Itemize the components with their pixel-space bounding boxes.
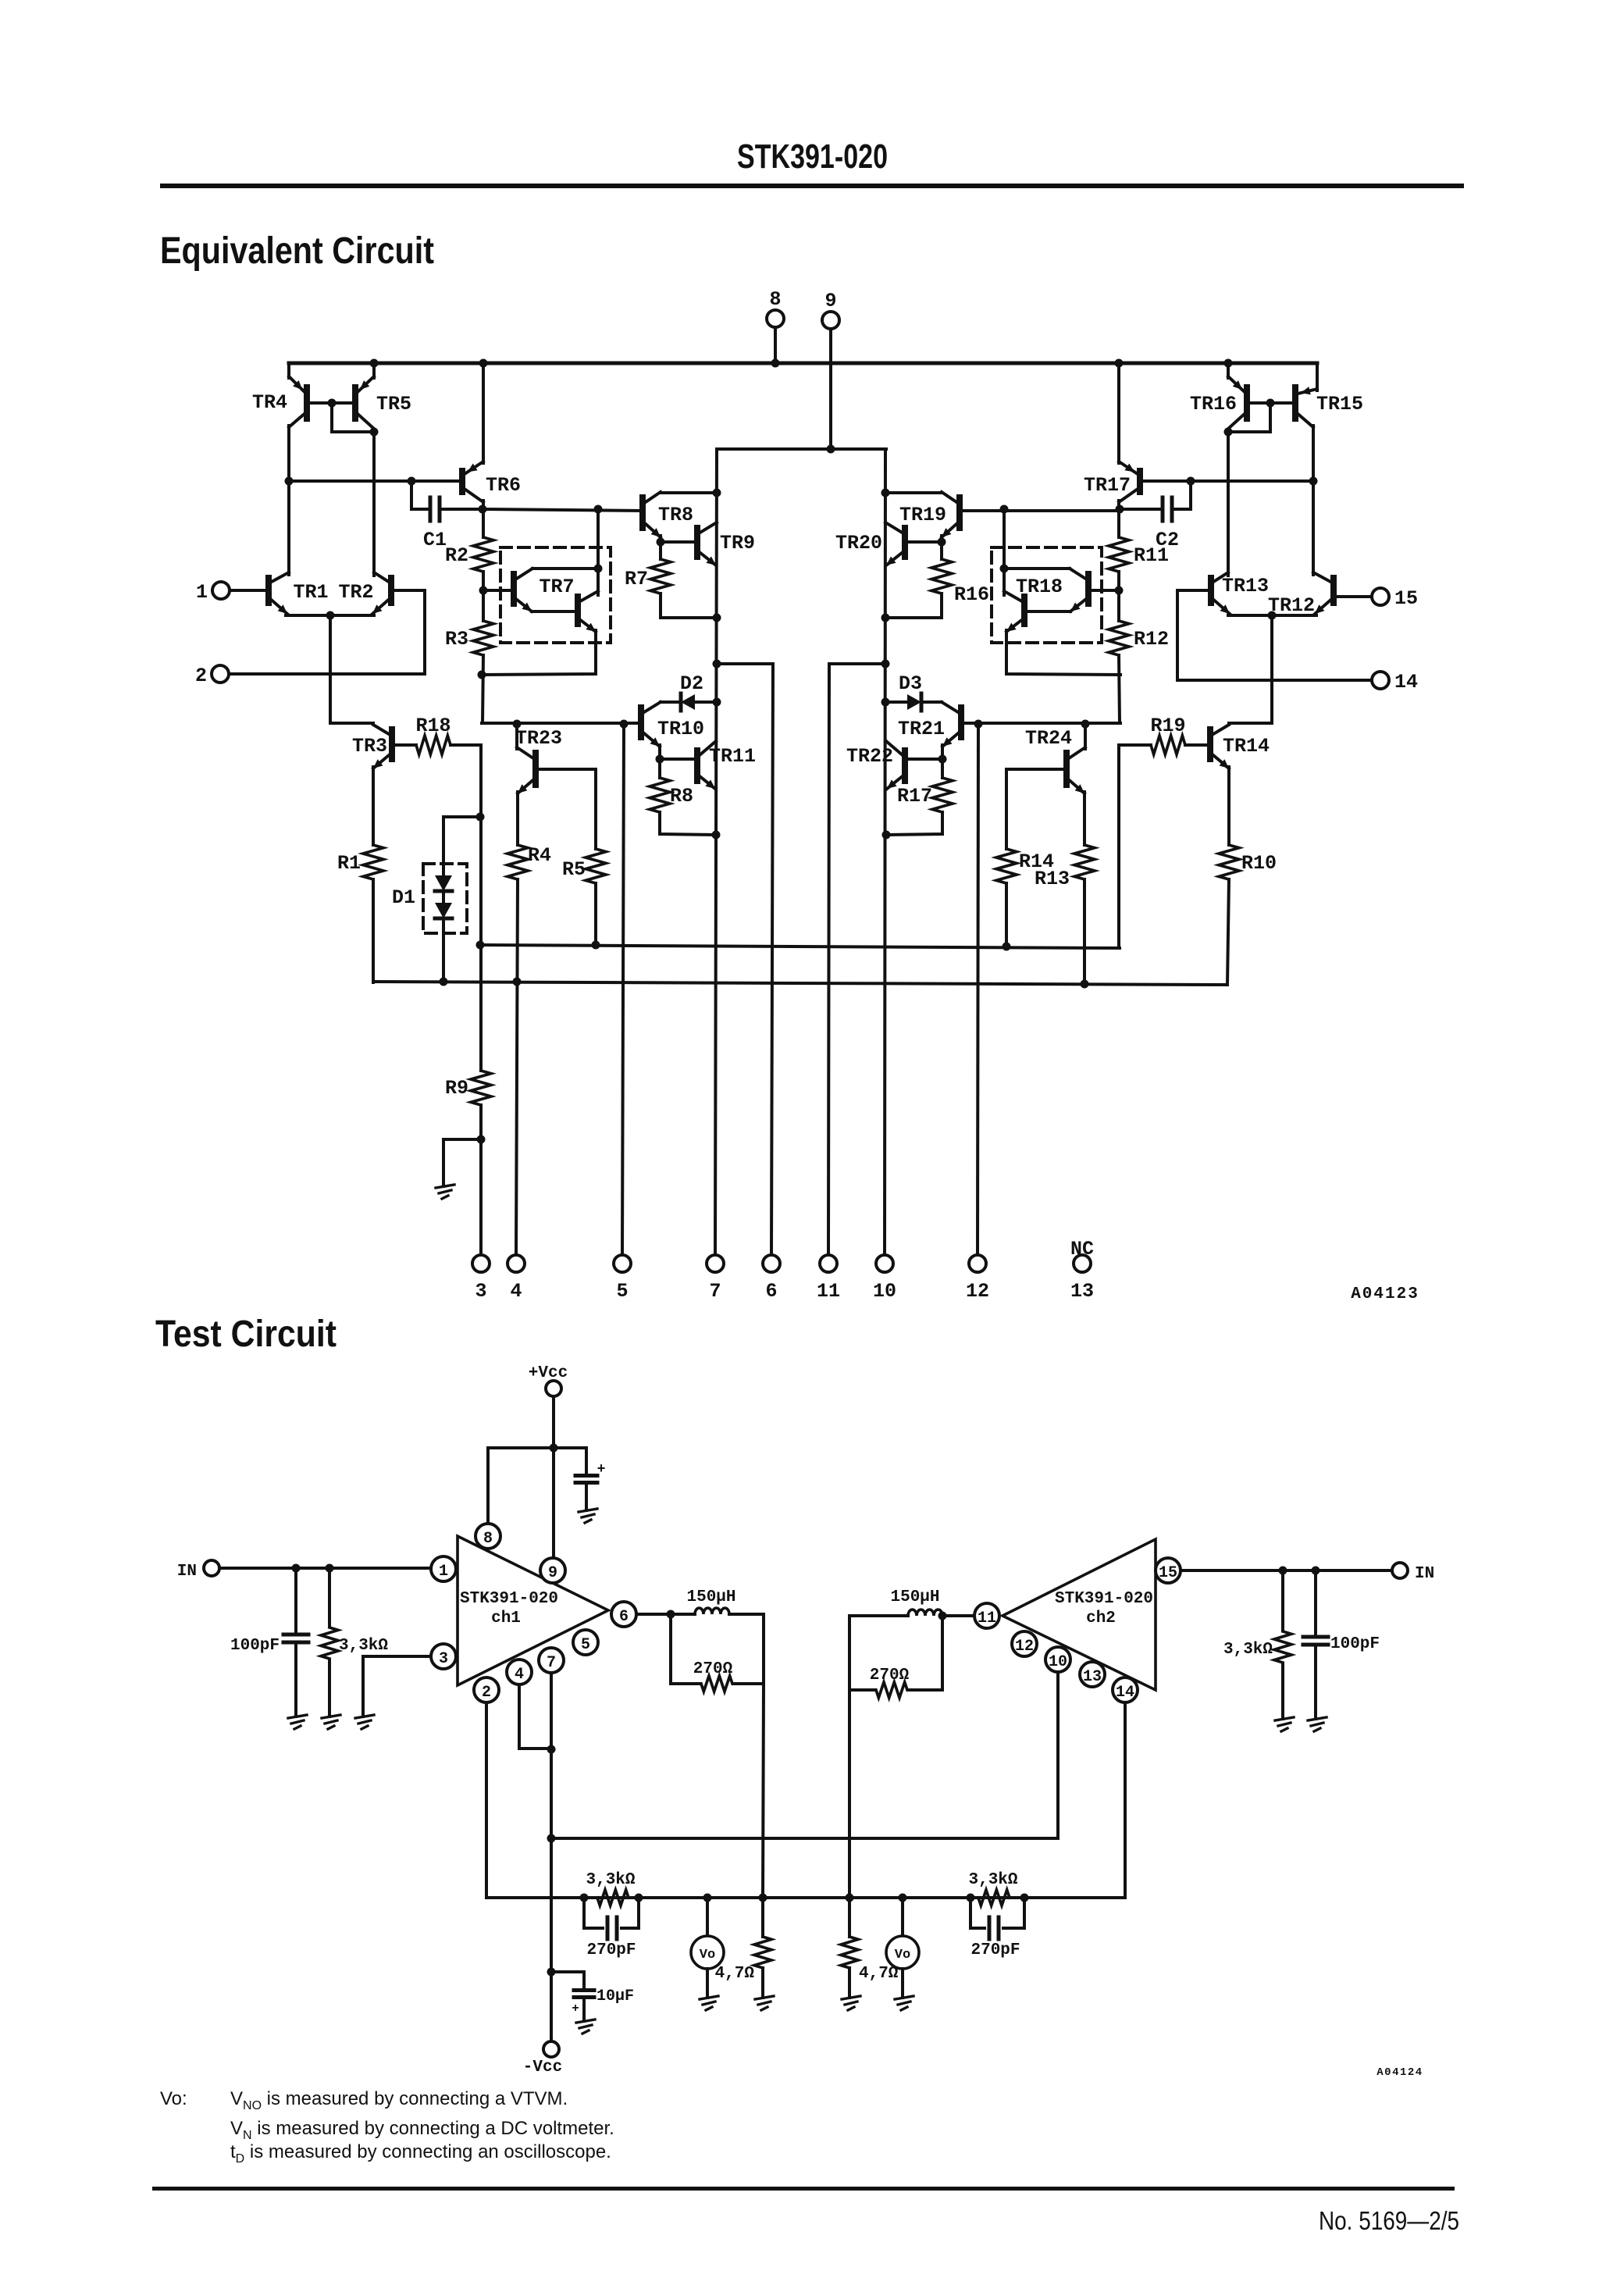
svg-text:R3: R3	[445, 628, 468, 651]
wire TR13 base to pin14 net	[1177, 590, 1211, 680]
svg-text:R18: R18	[415, 715, 451, 737]
svg-text:R9: R9	[445, 1077, 468, 1100]
svg-text:14: 14	[1394, 671, 1418, 693]
wire TR24 emitter to R13	[1083, 792, 1086, 845]
wire R2 to R3	[482, 572, 485, 621]
svg-text:TR6: TR6	[486, 474, 521, 497]
svg-text:TR9: TR9	[720, 532, 755, 554]
wire C2 right plate	[1172, 481, 1191, 509]
wire TR6 collector chain	[482, 501, 485, 537]
svg-text:15: 15	[1159, 1564, 1177, 1582]
wire load column ch1	[763, 1684, 764, 1898]
header rule	[160, 184, 1464, 188]
svg-text:STK391-020: STK391-020	[460, 1590, 558, 1608]
diode D2	[681, 694, 695, 710]
ground	[895, 1996, 913, 1999]
transistor TR13	[1208, 578, 1214, 603]
transistor TR8	[639, 497, 646, 528]
wire +Vcc column to pin9	[552, 1396, 555, 1559]
svg-text:6: 6	[619, 1608, 629, 1626]
svg-text:D3: D3	[899, 672, 922, 695]
svg-text:STK391-020: STK391-020	[737, 137, 888, 176]
transistor TR11	[694, 750, 700, 781]
svg-text:ch2: ch2	[1086, 1610, 1116, 1627]
wire C1 right plate to TR6 collector	[440, 508, 483, 511]
wire TR8 base line	[483, 509, 643, 511]
ground	[755, 1996, 774, 1999]
svg-text:A04124: A04124	[1376, 2066, 1423, 2079]
pin 1 terminal	[212, 582, 230, 599]
wire pin8 stub	[774, 327, 777, 363]
wire R5 bottom	[594, 883, 597, 945]
svg-text:150µH: 150µH	[686, 1588, 735, 1606]
wire TR4-TR5 base link	[307, 401, 355, 405]
wire pin9 to driver rail	[829, 329, 832, 449]
pin 14 of ch2	[1113, 1677, 1138, 1702]
resistor R12	[1109, 621, 1129, 655]
wire TR18a emitter to TR18b base	[1024, 610, 1070, 613]
transistor TR18b	[1021, 597, 1027, 624]
svg-text:100pF: 100pF	[1330, 1635, 1380, 1653]
wire pin1 to TR1 base	[230, 589, 269, 592]
svg-text:R2: R2	[445, 544, 468, 567]
resistor 4.7 ch1	[754, 1937, 771, 1968]
wire R16 leads	[940, 542, 943, 559]
svg-text:TR3: TR3	[352, 735, 387, 758]
transistor TR17	[1137, 471, 1143, 492]
ground	[1275, 1717, 1294, 1720]
wire TR18 base	[1088, 589, 1119, 592]
wire R4 bottom to pin4	[516, 879, 518, 1255]
wire TR1 collector	[287, 481, 290, 575]
svg-text:TR11: TR11	[709, 745, 756, 768]
svg-text:STK391-020: STK391-020	[1055, 1590, 1153, 1608]
pin 2 terminal	[212, 665, 229, 683]
wire TR3 base R18	[392, 743, 416, 747]
wire TR17 collector chain	[1117, 501, 1120, 537]
svg-text:R12: R12	[1134, 628, 1169, 651]
wire TR14 emitter / R10 column	[1227, 767, 1230, 845]
svg-text:13: 13	[1070, 1280, 1094, 1303]
wire TR16-TR15 base link	[1247, 401, 1295, 405]
svg-text:270pF: 270pF	[586, 1941, 636, 1959]
transistor TR20	[902, 528, 908, 557]
capacitor 10uF supply	[551, 1970, 584, 1973]
pin 10 of ch2	[1045, 1647, 1070, 1672]
ground	[355, 1715, 374, 1718]
svg-text:2: 2	[195, 665, 207, 687]
wire TR15 collector to TR17 base	[1140, 479, 1313, 483]
wire TR8 emitter to TR9 base	[659, 536, 662, 542]
transistor TR10	[638, 708, 644, 737]
resistor 3.3k right	[1281, 1570, 1284, 1630]
wire TR15 emitter to rail	[1316, 363, 1319, 390]
svg-text:R13: R13	[1035, 868, 1070, 890]
pin 7 terminal	[707, 1255, 724, 1272]
transistor TR5	[352, 387, 358, 419]
wire TR19 emitter to TR20 base	[940, 536, 943, 542]
resistor 3.3k feedback ch2	[978, 1890, 1010, 1905]
transistor TR2	[388, 578, 394, 603]
svg-text:IN: IN	[177, 1563, 197, 1581]
svg-text:+: +	[597, 1462, 606, 1478]
diode D1a	[435, 875, 452, 891]
svg-text:R11: R11	[1134, 544, 1169, 567]
transistor TR9	[694, 528, 700, 557]
wire pin8 riser	[486, 1448, 490, 1524]
wire long bus A	[480, 945, 1120, 948]
ground	[576, 2020, 595, 2023]
svg-text:ch1: ch1	[491, 1610, 521, 1627]
pin 5 of ch1	[573, 1630, 598, 1655]
svg-text:100pF: 100pF	[230, 1637, 280, 1655]
resistor R16	[931, 559, 952, 594]
transistor TR14	[1207, 729, 1213, 759]
wire TR3 emitter / R1 column	[372, 767, 375, 845]
wire ground stub	[443, 1138, 481, 1141]
wire TR7 collector to top net	[597, 509, 600, 595]
transistor TR16	[1244, 387, 1250, 419]
svg-text:TR20: TR20	[835, 532, 882, 554]
svg-text:TR5: TR5	[376, 393, 411, 415]
svg-text:TR17: TR17	[1084, 474, 1131, 497]
wire D2 leads	[661, 701, 681, 704]
wire pin15 to TR12 base	[1334, 595, 1372, 598]
svg-text:TR8: TR8	[658, 504, 693, 526]
svg-text:9: 9	[548, 1564, 557, 1582]
transistor TR1	[265, 578, 272, 603]
transistor TR4	[304, 387, 310, 419]
wire TR18 collector to top net	[1003, 509, 1006, 595]
vbe multiplier block TR7 dashed box	[500, 547, 611, 643]
svg-text:2: 2	[482, 1684, 491, 1702]
svg-text:Equivalent Circuit: Equivalent Circuit	[160, 230, 434, 272]
svg-text:A04123: A04123	[1351, 1285, 1419, 1303]
svg-text:TR19: TR19	[899, 504, 946, 526]
wire TR14 base R19	[1185, 743, 1210, 747]
svg-text:10: 10	[873, 1280, 896, 1303]
pin 15 of ch2	[1156, 1558, 1181, 1583]
op-amp block STK391-020 ch2	[1003, 1539, 1156, 1690]
wire R17 leads	[941, 759, 944, 778]
pin 4 terminal	[507, 1255, 525, 1272]
wire R19 to bus A	[1119, 743, 1151, 747]
svg-text:TR22: TR22	[846, 745, 893, 768]
wire TR7 base	[483, 589, 514, 592]
wire TR6 emitter from rail	[482, 363, 485, 463]
wire R11 to R12	[1117, 572, 1120, 621]
resistor R4	[507, 845, 528, 879]
transistor TR18a	[1085, 574, 1092, 604]
svg-text:Test Circuit: Test Circuit	[155, 1314, 337, 1355]
wire D3 leads	[921, 701, 942, 704]
svg-text:5: 5	[616, 1280, 628, 1303]
wire pin14 line	[1177, 679, 1372, 682]
pin 9 terminal	[822, 312, 839, 329]
capacitor 270pF ch1	[584, 1898, 603, 1928]
wire long bus B	[373, 982, 1227, 985]
wire TR2 base to pin2 net	[391, 590, 425, 674]
resistor R13	[1074, 845, 1095, 879]
wire TR15 collector drop	[1312, 426, 1315, 481]
wire TR7a emitter to TR7b base	[532, 610, 578, 613]
ground	[436, 1185, 454, 1188]
transistor TR7b	[575, 597, 581, 624]
svg-text:14: 14	[1116, 1684, 1134, 1702]
resistor R2	[473, 537, 493, 572]
power -Vcc terminal	[543, 2041, 559, 2057]
wire TR24 base to R14	[1006, 769, 1067, 849]
wire R3 bottom	[483, 655, 483, 723]
wire tail to TR14 collector	[1229, 615, 1272, 723]
wire IN to pin1	[219, 1567, 431, 1570]
svg-text:9: 9	[824, 290, 836, 312]
wire pin4 jumper	[519, 1684, 551, 1749]
svg-text:R7: R7	[625, 568, 648, 590]
wire pin5 column	[622, 724, 624, 1255]
svg-text:1: 1	[439, 1563, 448, 1581]
svg-text:Vo:: Vo:	[160, 2088, 187, 2109]
svg-text:3,3kΩ: 3,3kΩ	[968, 1871, 1017, 1889]
resistor 4.7 ch2	[841, 1937, 858, 1968]
ground	[842, 1996, 860, 1999]
input terminal IN right	[1392, 1563, 1408, 1578]
meter Vo ch1	[706, 1898, 709, 1936]
wire pin14 feedback drop ch2	[1124, 1702, 1127, 1898]
svg-text:R19: R19	[1150, 715, 1185, 737]
wire: +V top supply rail	[289, 362, 1317, 365]
pin 11 of ch2	[974, 1603, 999, 1628]
svg-text:6: 6	[765, 1280, 777, 1303]
ground	[1308, 1717, 1327, 1720]
wire TR12 collector	[1312, 481, 1315, 575]
svg-text:3,3kΩ: 3,3kΩ	[586, 1871, 635, 1889]
svg-text:7: 7	[709, 1280, 721, 1303]
svg-text:+: +	[572, 2002, 579, 2016]
transistor TR6	[459, 471, 465, 492]
svg-text:-Vcc: -Vcc	[523, 2059, 562, 2077]
svg-text:10µF: 10µF	[597, 1987, 634, 2005]
svg-text:+Vcc: +Vcc	[529, 1364, 568, 1382]
resistor 270 ch1	[669, 1614, 672, 1684]
svg-text:4: 4	[510, 1280, 522, 1303]
wire pin2 line	[229, 672, 425, 676]
ground	[700, 1996, 718, 1999]
svg-text:10: 10	[1049, 1653, 1067, 1671]
footer rule	[152, 2187, 1455, 2191]
wire TR23 collector	[515, 724, 518, 749]
svg-text:TR13: TR13	[1222, 575, 1269, 597]
pin 4 of ch1	[507, 1659, 532, 1684]
pin 8 terminal	[767, 310, 784, 327]
wire TR16 emitter to rail	[1227, 363, 1230, 378]
wire TR4 collector to TR6 base	[289, 479, 462, 483]
wire TR5 emitter to rail	[372, 363, 376, 378]
wire TR7 emitter return	[482, 630, 596, 675]
svg-text:TR15: TR15	[1316, 393, 1363, 415]
capacitor C1	[429, 497, 433, 521]
wire D1 column	[442, 817, 445, 875]
resistor R9	[471, 1071, 491, 1105]
wire feedback bus	[486, 1896, 1125, 1899]
svg-text:11: 11	[817, 1280, 840, 1303]
pin 10 terminal	[876, 1255, 893, 1272]
svg-text:No. 5169—2/5: No. 5169—2/5	[1319, 2206, 1459, 2235]
wire pin12 column	[978, 724, 978, 1255]
op-amp block STK391-020 ch1	[458, 1536, 608, 1685]
wire TR19 collector	[885, 491, 942, 494]
svg-text:TR4: TR4	[252, 391, 287, 414]
diode D1b	[435, 903, 452, 918]
svg-text:TR14: TR14	[1223, 735, 1270, 758]
wire TR1-TR2 emitter tail	[286, 614, 374, 617]
svg-text:TR23: TR23	[515, 727, 562, 750]
svg-text:R1: R1	[337, 852, 361, 875]
svg-text:R16: R16	[954, 583, 989, 606]
pin 11 terminal	[820, 1255, 837, 1272]
svg-text:Vo: Vo	[700, 1948, 715, 1963]
wire TR4 emitter to rail	[287, 363, 290, 378]
svg-text:8: 8	[483, 1530, 493, 1548]
pin 13 of ch2	[1080, 1662, 1105, 1687]
diode D3	[907, 694, 921, 710]
wire R9 to pin3	[479, 1105, 483, 1255]
svg-text:TR16: TR16	[1190, 393, 1237, 415]
resistor R18	[416, 736, 451, 754]
svg-text:R8: R8	[670, 785, 693, 807]
svg-text:1: 1	[196, 581, 208, 604]
capacitor supply bypass	[585, 1448, 588, 1473]
wire main left driver column	[715, 449, 717, 1255]
pin 1 of ch1	[431, 1556, 456, 1581]
transistor TR19	[956, 497, 963, 528]
wire R18 to bias column	[451, 743, 481, 747]
wire TR4 collector drop	[287, 426, 290, 481]
svg-text:VNO is measured by connecting: VNO is measured by connecting a VTVM.	[230, 2088, 568, 2112]
wire TR18 emitter return	[1006, 630, 1120, 675]
wire inductor to corner	[729, 1613, 764, 1616]
svg-text:R17: R17	[897, 785, 932, 807]
wire TR18a collector rail	[1004, 567, 1070, 570]
resistor 3.3k feedback ch1	[597, 1890, 629, 1905]
svg-text:3: 3	[475, 1280, 486, 1303]
resistor 3.3k input	[328, 1568, 331, 1626]
wire TR21 emitter to TR22 base	[941, 745, 944, 759]
pin 14 terminal	[1372, 672, 1389, 689]
transistor TR22	[902, 750, 908, 781]
svg-text:3,3kΩ: 3,3kΩ	[339, 1637, 388, 1655]
wire R7 leads	[659, 542, 662, 559]
svg-text:TR7: TR7	[539, 576, 574, 598]
wire TR12-TR13 emitter tail	[1228, 614, 1316, 617]
resistor R1	[363, 845, 383, 879]
transistor TR12	[1330, 578, 1337, 603]
pin 15 terminal	[1372, 588, 1389, 605]
pin 3 terminal	[472, 1255, 490, 1272]
svg-text:TR21: TR21	[898, 718, 945, 740]
wire pin6 output	[636, 1613, 695, 1616]
capacitor 100pF right	[1314, 1570, 1317, 1634]
wire R14 bottom	[1005, 883, 1008, 946]
svg-text:4,7Ω: 4,7Ω	[715, 1965, 755, 1983]
wire R13 bottom	[1083, 879, 1086, 984]
transistor TR23	[532, 753, 539, 785]
svg-text:4,7Ω: 4,7Ω	[859, 1965, 899, 1983]
svg-text:TR10: TR10	[657, 718, 704, 740]
wire TR23 emitter to R4	[516, 792, 519, 845]
wire TR5 collector to TR2 collector	[372, 430, 376, 576]
pin 12 terminal	[969, 1255, 986, 1272]
wire pin15 output to IN right	[1181, 1569, 1392, 1572]
pin 6 terminal	[763, 1255, 780, 1272]
transistor TR21	[958, 708, 964, 737]
resistor R5	[586, 849, 606, 883]
svg-text:150µH: 150µH	[890, 1588, 939, 1606]
ground	[579, 1509, 597, 1512]
capacitor C2	[1161, 497, 1165, 521]
wire D1 top to bias column	[443, 815, 480, 818]
svg-text:TR24: TR24	[1025, 727, 1072, 750]
svg-text:12: 12	[1015, 1638, 1034, 1656]
vbe multiplier block TR18 dashed box	[992, 547, 1102, 643]
wire tail to TR3 collector	[330, 615, 373, 723]
inductor 150uH ch1	[695, 1608, 729, 1614]
resistor R8	[650, 778, 670, 812]
pin 7 of ch1	[539, 1648, 564, 1673]
resistor R3	[473, 621, 493, 655]
wire output branch to pin6	[717, 662, 773, 665]
transistor TR15	[1292, 387, 1298, 419]
wire TR10 emitter to TR11 base	[658, 745, 661, 759]
wire TR8 collector	[661, 491, 717, 494]
wire TR17 collector net to TR21 base	[961, 722, 1120, 725]
wire output branch to pin11	[829, 662, 885, 665]
wire pin3 to ground	[363, 1656, 431, 1717]
resistor R17	[932, 778, 953, 812]
pin 5 terminal	[614, 1255, 631, 1272]
resistor R10	[1219, 845, 1239, 879]
wire pin10 link drop ch2	[1056, 1672, 1060, 1838]
wire TR24 collector	[1084, 724, 1087, 749]
pin 3 of ch1	[431, 1644, 456, 1669]
resistor 270 ch2	[848, 1616, 851, 1690]
resistor R7	[650, 559, 671, 594]
pin 12 of ch2	[1012, 1631, 1037, 1656]
svg-text:4: 4	[515, 1666, 524, 1684]
meter Vo ch2	[901, 1898, 904, 1936]
svg-text:tD is measured by connecting a: tD is measured by connecting an oscillos…	[230, 2141, 611, 2166]
wire driver rail node	[717, 447, 886, 451]
svg-text:R5: R5	[562, 858, 586, 881]
resistor R14	[996, 849, 1017, 883]
resistor R19	[1151, 736, 1185, 754]
wire TR19 base line	[960, 509, 1120, 512]
svg-text:8: 8	[769, 288, 781, 311]
wire pin2 feedback drop	[485, 1702, 488, 1898]
wire TR16 base-collector tie	[1228, 403, 1270, 432]
transistor TR24	[1063, 753, 1070, 785]
wire C2 left plate to TR17 collector	[1120, 508, 1163, 511]
wire TR7a collector rail	[532, 567, 598, 570]
inductor 150uH ch2	[942, 1614, 974, 1617]
pin 2 of ch1	[474, 1677, 499, 1702]
wire R12 bottom	[1119, 655, 1120, 723]
wire pin7 column to -Vcc	[550, 1673, 553, 2041]
wire bias column	[479, 745, 483, 1071]
wire TR23 base to R5	[536, 769, 596, 849]
svg-text:D1: D1	[392, 886, 415, 909]
wire TR17 emitter from rail	[1117, 363, 1120, 463]
